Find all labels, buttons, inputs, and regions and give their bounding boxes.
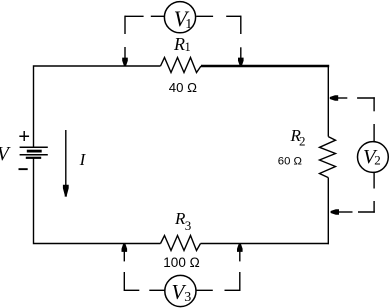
bottom horizontal dashes [339,211,353,213]
voltmeter V1 [164,2,195,33]
right horizontal dashes [196,15,213,17]
V3 left arrow [122,244,128,252]
top horizontal dashes [338,97,348,99]
svg-text:+: + [18,126,30,148]
svg-text:3: 3 [185,218,192,233]
wire bottom-left segment [34,158,161,244]
V2 dashed connections [338,97,375,212]
right vertical dashes [240,16,242,34]
V2 bottom arrow [331,209,339,215]
V2 top arrow [330,95,338,101]
svg-text:1: 1 [185,40,191,54]
voltmeter V2 [358,142,389,173]
top vertical dashes [373,97,375,111]
svg-text:2: 2 [299,133,306,148]
left vertical dashes [123,252,125,262]
left horizontal dashes [125,15,144,17]
wire right upper segment [327,66,329,137]
wire top-left segment [34,66,161,147]
V1 left arrow [122,58,128,66]
V3 right arrow [237,244,243,252]
svg-text:40 Ω: 40 Ω [169,80,197,95]
svg-text:60 Ω: 60 Ω [278,156,302,168]
wire bottom-right segment [201,243,330,245]
svg-text:100 Ω: 100 Ω [163,255,199,270]
wire right lower segment [327,178,329,245]
battery minus [19,168,28,170]
svg-text:R: R [173,34,185,54]
right vertical dashes [239,272,241,291]
current arrow I [63,130,69,197]
left vertical dashes [124,16,126,34]
battery V plates [20,147,48,158]
svg-text:3: 3 [184,290,191,305]
resistor R3 [161,236,201,251]
V1 dashed connections [125,16,241,59]
V1 right arrow [238,58,244,66]
bottom vertical dashes [373,173,375,189]
V3 dashed connections [124,252,240,292]
left horizontal dashes [124,289,139,291]
resistor R2 [320,137,336,178]
svg-text:1: 1 [185,17,192,32]
resistor R1 [161,58,202,73]
voltmeter V3 [165,275,196,306]
svg-text:2: 2 [374,152,381,167]
right horizontal dashes [196,289,213,291]
wire top-right thick segment [201,65,329,68]
